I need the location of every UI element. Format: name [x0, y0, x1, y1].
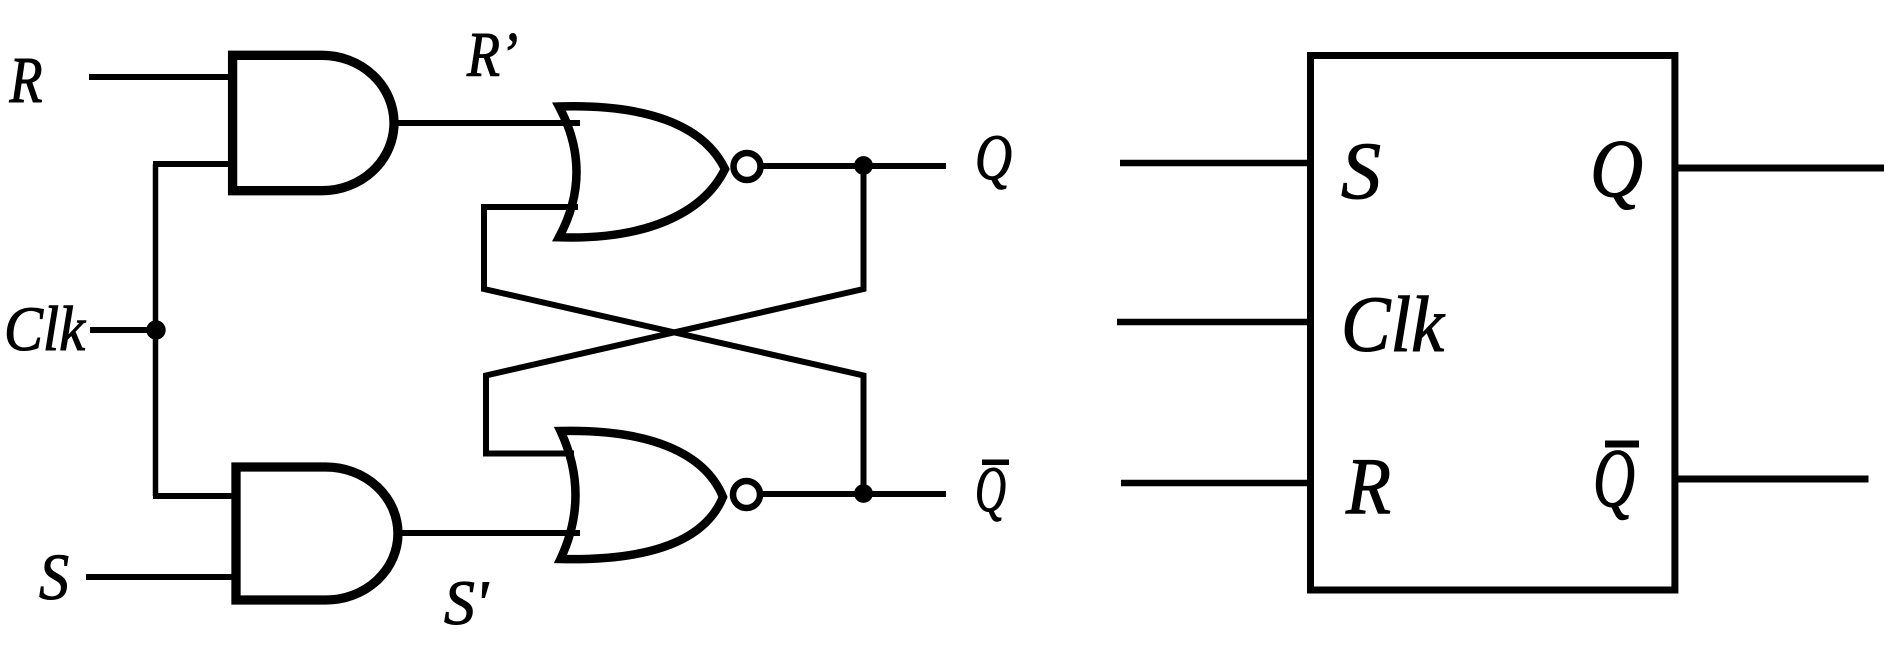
node Q junction — [854, 156, 873, 175]
wire Q output from box — [1675, 165, 1884, 172]
wire Clk stub — [90, 327, 156, 333]
wire Clk input to box — [1117, 319, 1308, 326]
nor-gate top bubble — [734, 153, 761, 180]
svg-text:Clk: Clk — [4, 294, 86, 364]
wire Clk vertical — [153, 164, 159, 496]
wire Clk branch to AND2 — [153, 493, 236, 499]
wire S input to AND2 — [86, 574, 236, 580]
wire feedback Q to NOR2 input (cross) — [486, 166, 864, 454]
wire S input to box — [1120, 160, 1308, 167]
node Clk junction — [146, 320, 165, 339]
nor-gate bottom bubble — [733, 481, 760, 508]
svg-text:R: R — [1345, 441, 1391, 531]
wire Clk branch to AND1 — [153, 161, 233, 167]
svg-text:Clk: Clk — [1341, 282, 1446, 369]
and-gate top (R AND Clk) — [233, 55, 394, 190]
wire R input to AND1 — [89, 74, 233, 80]
svg-text:S: S — [1341, 125, 1381, 216]
wire AND1 output to NOR1 input — [392, 120, 580, 126]
nor-gate bottom body — [561, 431, 724, 559]
wire AND2 output to NOR2 input — [396, 530, 580, 536]
svg-text:R: R — [9, 44, 43, 117]
wire NOR1 bubble to Q — [761, 163, 946, 169]
wire feedback Qbar to NOR1 input (cross) — [484, 207, 864, 494]
svg-text:R’: R’ — [466, 20, 518, 90]
svg-text:Q: Q — [1590, 122, 1643, 214]
svg-text:Q: Q — [975, 122, 1012, 194]
svg-text:S': S' — [444, 567, 489, 638]
svg-text:S: S — [39, 541, 69, 614]
wire NOR2 bubble to Qbar — [760, 491, 946, 497]
wire R input to box — [1121, 480, 1308, 487]
nor-gate top body — [559, 106, 725, 237]
node Qbar junction — [854, 484, 873, 503]
and-gate bottom (S AND Clk) — [236, 467, 398, 600]
wire Qbar output from box — [1675, 476, 1869, 483]
flip-flop block box — [1311, 56, 1675, 591]
